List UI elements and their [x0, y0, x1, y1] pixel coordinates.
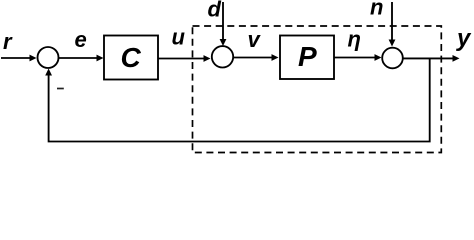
wire eta: P to S3 [334, 57, 376, 59]
block P [280, 36, 334, 80]
svg-text:r: r [3, 29, 13, 54]
svg-text:v: v [248, 27, 262, 52]
wire v: S2 to P [233, 57, 272, 59]
wire feedback branch [49, 58, 430, 141]
wire u: C to S2 [158, 58, 205, 60]
wire n input [391, 2, 393, 41]
svg-text:d: d [208, 0, 222, 22]
svg-text:y: y [456, 25, 472, 52]
wire d input [222, 2, 224, 40]
wire e: S1 to C [59, 57, 98, 59]
minus sign at S1 [57, 88, 64, 90]
svg-text:C: C [121, 42, 142, 73]
dashed plant boundary box [193, 26, 442, 153]
svg-text:P: P [298, 41, 317, 72]
summing junction S2 [212, 46, 233, 67]
block C [104, 36, 158, 80]
svg-text:e: e [75, 27, 87, 52]
svg-text:u: u [172, 25, 186, 50]
summing junction S1 [38, 47, 59, 68]
wire r input [1, 57, 31, 59]
summing junction S3 [382, 48, 403, 69]
svg-text:n: n [370, 0, 383, 20]
wire y output [403, 57, 454, 59]
svg-text:η: η [348, 27, 361, 52]
